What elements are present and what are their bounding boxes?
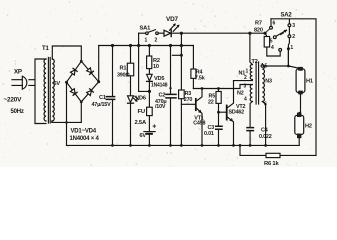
capacitor C4 [247,128,253,147]
svg-text:820: 820 [254,28,263,34]
battery GB 6V [144,132,155,147]
svg-text:3: 3 [244,84,247,90]
svg-text:1N4004 × 4: 1N4004 × 4 [70,136,100,142]
transformer T2 [250,62,264,104]
svg-text:VD5: VD5 [154,76,164,82]
svg-text:/10V: /10V [155,104,166,110]
resistor R6 and bottom loop [239,144,316,158]
wire plug to T1 [29,59,46,124]
switch SA1 [137,30,158,93]
svg-text:1: 1 [145,38,148,44]
wire N1 pin1 riser [250,33,253,64]
resistor R1 [127,44,133,96]
transistor VT1 [196,89,204,147]
svg-text:R6 1k: R6 1k [264,161,279,167]
resistor R2 [147,44,152,74]
diode VD5 [147,74,153,107]
wire R3 to VT1 base [181,103,195,105]
wire T1 secondary bottom to bridge [52,102,82,123]
svg-text:R7: R7 [255,21,262,27]
lamp H1 [296,67,305,95]
svg-text:SA1: SA1 [140,26,152,32]
resistor R3 [179,90,185,99]
svg-text:VD7: VD7 [166,16,178,23]
svg-text:1: 1 [290,45,293,51]
wire N3 pin5 circle to SA2 column [261,64,290,68]
svg-text:SA2: SA2 [281,13,293,19]
svg-text:2: 2 [155,38,158,44]
svg-text:6: 6 [273,21,276,27]
svg-text:5: 5 [270,39,273,45]
wire N3 pin6 down to rail [262,102,265,146]
top bus wire [99,45,194,47]
ground rail wire [67,144,300,146]
svg-text:VD1~VD4: VD1~VD4 [71,129,97,135]
svg-text:T1: T1 [42,46,49,52]
svg-text:2: 2 [244,75,247,81]
wire T1 secondary top to bridge [52,46,81,61]
plug XP [12,76,27,89]
wire to VT2 base [219,111,227,113]
wire VD7 to SA2 [171,32,265,34]
svg-text:C458: C458 [193,120,205,126]
wire VT2 collector to T2 N1 pin2 [234,80,253,82]
transformer T1 [44,58,54,124]
led VD6 [128,96,139,147]
svg-text:FU: FU [138,109,145,115]
capacitor C2 [166,44,176,147]
led VD7 [158,23,179,36]
svg-text:22: 22 [208,100,214,106]
node bridge minus to ground rail [66,82,68,145]
svg-text:47μ/15V: 47μ/15V [92,102,112,108]
svg-text:1: 1 [246,69,249,75]
capacitor C1 [106,44,114,147]
svg-text:N2: N2 [237,91,244,97]
lamp H2 [295,113,304,139]
svg-text:SD462: SD462 [229,110,245,116]
svg-text:10: 10 [153,64,159,70]
resistor R7 [263,32,280,56]
svg-text:H2: H2 [305,124,312,130]
svg-text:50Hz: 50Hz [11,109,24,115]
wire SA2 column to lamp H1 [288,49,300,69]
switch SA2 [265,19,291,66]
svg-text:~220V: ~220V [4,97,23,104]
svg-text:H1: H1 [306,79,313,85]
svg-text:4: 4 [244,97,247,103]
svg-text:0.01: 0.01 [204,131,214,137]
wire collector line [193,85,252,89]
svg-text:3: 3 [292,23,295,29]
wire SA2 top link [271,19,316,156]
resistor R4 [191,46,196,89]
svg-text:6V: 6V [54,81,61,87]
svg-text:+: + [152,124,156,131]
fuse FU [147,107,153,131]
wire H2 bottom to rail end [298,138,300,145]
transistor VT2 [227,81,235,147]
svg-text:4: 4 [271,45,274,51]
svg-text:270: 270 [184,97,193,103]
svg-text:C4: C4 [261,128,268,134]
svg-text:2: 2 [292,34,295,40]
wire N2 pin4 to C4 [250,102,252,128]
svg-text:VD6: VD6 [136,96,146,102]
svg-text:R1: R1 [120,66,127,72]
capacitor C3 [216,112,222,147]
wire bridge plus up to bus [98,46,100,82]
node R5 C3 base [217,111,220,114]
resistor R5 [216,89,221,113]
bridge rectifier VD1~VD4 [67,61,99,102]
svg-text:C2: C2 [159,92,166,98]
svg-text:6V: 6V [140,133,147,139]
svg-text:7.5k: 7.5k [195,76,205,82]
svg-text:XP: XP [14,69,22,76]
svg-text:C1: C1 [99,95,106,101]
svg-text:N3: N3 [265,79,272,85]
wire R3 column from VD7 line to base corner [172,32,183,147]
wire between lamps [299,94,300,112]
svg-text:2.5A: 2.5A [135,120,147,126]
svg-text:390Ω: 390Ω [117,73,130,79]
svg-text:1N4148: 1N4148 [151,83,168,89]
